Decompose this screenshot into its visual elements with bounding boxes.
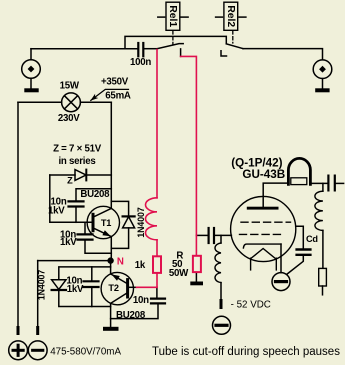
tube envelope GU-43B <box>231 196 296 261</box>
red wire coil to 1k <box>156 240 158 256</box>
resistor R2 <box>319 268 327 286</box>
relay Rel1 coil box <box>158 2 188 30</box>
svg-text:65mA: 65mA <box>105 91 131 102</box>
wire T1 emitter to node N <box>110 237 112 261</box>
capacitor C3 10n 1kV in box <box>84 281 99 287</box>
wire Cd to cathode connector <box>287 256 304 274</box>
node N junction dot <box>107 257 113 263</box>
svg-text:Z = 7 × 51V: Z = 7 × 51V <box>53 143 102 154</box>
wire junction to choke <box>322 183 324 191</box>
capacitor C 100n <box>138 43 143 56</box>
switch contact S1 (Rel1, open) <box>157 44 183 57</box>
diode D1 1N4007 beside T1 <box>111 201 134 248</box>
svg-text:100n: 100n <box>130 57 151 68</box>
connector tube cathode <box>272 273 290 291</box>
red wire junction to T2 base <box>137 286 158 288</box>
wire T2 base black part <box>129 286 136 288</box>
wire BU208 row to main rail <box>76 189 111 201</box>
wire R2 stub <box>322 286 324 295</box>
pin end -52V <box>220 301 223 308</box>
wire -rail vertical <box>37 261 39 328</box>
red wire Rel1 contact to grid coil <box>156 50 158 198</box>
capacitor C4 10n at T2 <box>151 299 165 304</box>
switch contact S2 (Rel2, closed) <box>221 44 243 56</box>
pin end +rail <box>17 328 20 334</box>
wire T2 collector to ground <box>110 303 112 327</box>
wire +rail vertical <box>17 102 19 328</box>
svg-text:T2: T2 <box>108 283 118 293</box>
wire C4 to T2 collector <box>111 305 158 319</box>
wire choke to R2 <box>322 230 324 268</box>
anode cap base insulator <box>291 178 307 185</box>
dashed actuator link Rel1 <box>172 31 174 45</box>
tube beam plate staple <box>243 244 281 248</box>
svg-text:1kV: 1kV <box>60 237 77 248</box>
svg-text:BU208: BU208 <box>80 189 110 200</box>
svg-text:Tube is cut-off during speech: Tube is cut-off during speech pauses <box>152 346 340 358</box>
protection box bottom wire <box>59 290 111 307</box>
svg-text:15W: 15W <box>60 81 80 92</box>
svg-text:1kV: 1kV <box>48 206 65 217</box>
svg-text:+350V: +350V <box>101 76 129 87</box>
black stub under R <box>195 272 197 281</box>
zener diode Z chain <box>50 170 112 181</box>
transistor T2 BU208 <box>101 272 133 304</box>
svg-text:BU208: BU208 <box>116 310 146 321</box>
wire grid cap to tube <box>215 234 231 236</box>
wire g2 to Cd <box>296 226 304 248</box>
wire C3 top <box>91 267 93 280</box>
resistor R 50 50W <box>193 256 201 272</box>
label +350V with pointer <box>90 76 128 100</box>
wire C3 bottom <box>91 288 93 306</box>
wire base to C2 <box>84 222 86 233</box>
wire arch to blocking cap <box>310 182 327 184</box>
wire blocking cap stub <box>336 182 344 184</box>
svg-text:230V: 230V <box>58 113 80 124</box>
wire C2 to emitter rail <box>85 241 111 254</box>
capacitor blocking top right <box>328 176 334 191</box>
svg-text:Rel1: Rel1 <box>167 5 178 27</box>
connector +terminal <box>9 341 28 360</box>
wire grid cap to red junction <box>196 234 207 236</box>
connector -terminal <box>28 341 47 360</box>
tube grid g2 dashed <box>241 221 291 223</box>
wire J1 to cap 100n <box>31 48 137 50</box>
svg-text:1N4007: 1N4007 <box>136 207 146 237</box>
capacitor Cd <box>297 250 311 255</box>
inductor L1 grid choke <box>215 235 221 300</box>
svg-text:in series: in series <box>58 156 95 167</box>
wire node N to -rail <box>38 260 111 262</box>
svg-text:Z: Z <box>67 176 73 186</box>
wire staple to cathode connector <box>280 244 282 273</box>
relay Rel2 coil box <box>216 2 246 30</box>
svg-text:T1: T1 <box>101 218 111 228</box>
protection box top wire <box>59 267 111 280</box>
resistor 1k <box>153 256 161 273</box>
inductor L3 red coil <box>146 198 158 240</box>
svg-text:1kV: 1kV <box>67 284 84 295</box>
pin end -rail <box>36 328 39 334</box>
tube grid g1 dashed <box>240 233 282 235</box>
diode D2 1N4007 <box>52 280 66 290</box>
wire top rail to Rel2 pole <box>125 36 226 48</box>
ground bar under J1 <box>24 88 38 92</box>
svg-text:50W: 50W <box>169 268 189 279</box>
inductor L2 anode choke <box>315 191 323 230</box>
connector J1 left mains socket <box>22 49 41 88</box>
ground bar under J2 <box>315 88 329 92</box>
svg-text:GU-43B: GU-43B <box>242 168 285 181</box>
ground bar T2 <box>103 327 119 331</box>
svg-text:Cd: Cd <box>306 234 318 244</box>
tube filament <box>251 249 277 270</box>
connector J2 right socket <box>313 60 332 88</box>
tube anode plate <box>247 207 279 210</box>
wire node N to T2 emitter <box>110 261 112 274</box>
svg-text:Rel2: Rel2 <box>225 5 236 27</box>
svg-text:475-580V/70mA: 475-580V/70mA <box>50 346 121 357</box>
main rail lamp to T1 collector <box>110 102 112 208</box>
ground bar under R <box>190 282 203 286</box>
wire junction to C4 <box>156 287 158 297</box>
connector -52V terminal <box>213 316 231 334</box>
wire left rail zener to T1 base <box>50 175 92 222</box>
red wire Rel1 right terminal <box>181 56 197 235</box>
svg-text:10n: 10n <box>133 295 149 306</box>
transistor T1 BU208 <box>87 206 119 238</box>
anode top cap arch <box>288 158 310 184</box>
capacitor C1 10n 1kV <box>69 201 84 206</box>
svg-text:- 52 VDC: - 52 VDC <box>231 300 271 311</box>
wire C1 to base wire <box>75 208 77 223</box>
svg-text:N: N <box>117 256 124 267</box>
wire Rel2 to connector J2 <box>243 49 323 60</box>
wire lamp right to main rail <box>80 101 111 103</box>
wire cap 100n to Rel1 contact <box>144 48 157 50</box>
capacitor grid coupling <box>209 228 214 243</box>
capacitor C2 10n 1kV <box>78 234 93 239</box>
tube anode lead <box>263 183 288 207</box>
svg-text:1k: 1k <box>135 260 146 271</box>
dashed actuator link Rel2 <box>232 31 234 43</box>
wire lamp left to +rail <box>18 101 62 103</box>
red wire 1k to junction <box>156 273 158 287</box>
red wire to resistor R <box>195 235 197 255</box>
lamp LA1 15W 230V <box>62 93 81 112</box>
svg-text:1N4007: 1N4007 <box>36 270 46 300</box>
